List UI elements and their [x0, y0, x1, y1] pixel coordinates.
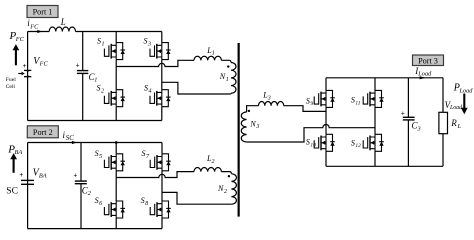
svg-text:3: 3: [267, 96, 271, 102]
inductor L3: [259, 102, 284, 106]
svg-text:5: 5: [99, 154, 102, 160]
svg-text:FC: FC: [39, 61, 49, 68]
node dot N2 top: [228, 175, 230, 177]
current arrow I_Load: [420, 76, 426, 79]
port 2 wire: left source branch: [27, 143, 29, 229]
svg-text:12: 12: [355, 143, 361, 149]
capacitor C1 branch wires: [82, 32, 84, 121]
node dot N1 top: [227, 65, 229, 67]
winding N1: [231, 63, 236, 94]
svg-text:L: L: [60, 17, 66, 27]
svg-text:SC: SC: [6, 187, 18, 197]
svg-text:S: S: [97, 84, 101, 93]
wire N1 bottom return: [162, 82, 231, 94]
Port 3 label box: [413, 55, 444, 66]
svg-text:3: 3: [417, 125, 421, 132]
wire A: bridge1 output to L1: [116, 60, 194, 66]
port 3 bottom rail wire: [326, 165, 443, 167]
capacitor C2: [75, 180, 87, 182]
transistor S9: [314, 90, 335, 107]
leg 2 wires port 3: [374, 78, 376, 167]
Port 1 label box: [27, 6, 58, 18]
power arrow P_BA: [10, 153, 17, 173]
svg-text:+: +: [73, 172, 77, 180]
svg-text:Port 1: Port 1: [33, 8, 53, 17]
leg 2 wires port 2: [161, 143, 163, 229]
leg 1 wires port 3: [325, 78, 327, 167]
svg-text:7: 7: [146, 154, 150, 160]
port 2 bottom rail wire: [28, 228, 162, 230]
svg-text:S: S: [142, 149, 146, 158]
svg-text:Cell: Cell: [6, 84, 16, 90]
port 1 wire: left source branch: [27, 32, 29, 121]
transistor S7: [150, 154, 171, 171]
svg-text:S: S: [97, 37, 101, 46]
svg-text:Load: Load: [417, 71, 432, 78]
svg-text:L: L: [457, 123, 462, 130]
transistor S10: [314, 134, 335, 151]
leg 1 wires port 2: [115, 143, 117, 229]
wire L3 to bridge3 leg1: [284, 106, 326, 112]
svg-text:6: 6: [99, 201, 102, 207]
fuel cell symbol: [18, 70, 31, 76]
inductor L2: [194, 168, 221, 172]
svg-text:2: 2: [88, 190, 92, 197]
transistor S3: [150, 43, 171, 60]
svg-text:1: 1: [212, 51, 215, 57]
transistor S8: [150, 201, 171, 218]
port 1 top rail wire: [28, 31, 162, 33]
resistor R_L: [439, 112, 448, 133]
transistor S12: [363, 134, 384, 151]
svg-text:Port 2: Port 2: [33, 128, 53, 137]
power arrow P_Load: [461, 94, 468, 115]
current arrow i_FC: [37, 30, 42, 33]
port 2 top rail wire: [28, 142, 162, 144]
svg-text:S: S: [351, 138, 355, 147]
svg-text:2: 2: [101, 89, 104, 95]
current arrow i_SC: [72, 141, 77, 144]
wire L2 to N2: [221, 172, 231, 174]
capacitor C3: [403, 116, 415, 118]
svg-text:FC: FC: [29, 24, 39, 31]
svg-text:10: 10: [310, 142, 316, 148]
load branch wires: [442, 78, 444, 167]
svg-text:3: 3: [255, 124, 259, 130]
svg-text:Load: Load: [449, 105, 462, 111]
transistor S5: [104, 154, 125, 171]
supercapacitor SC: [21, 179, 34, 181]
svg-text:+: +: [23, 62, 27, 70]
svg-text:S: S: [306, 138, 310, 147]
svg-text:S: S: [95, 196, 99, 205]
svg-text:3: 3: [147, 41, 151, 47]
svg-text:BA: BA: [15, 149, 23, 156]
leg 2 wires: [161, 32, 163, 121]
power arrow P_FC: [13, 44, 20, 65]
inductor L: [49, 27, 75, 32]
svg-text:+: +: [76, 62, 80, 70]
port 1 bottom rail wire: [28, 120, 162, 122]
leg 1 wires: [115, 32, 117, 121]
Port 2 label box: [27, 126, 58, 138]
svg-text:2: 2: [212, 159, 215, 165]
wire N2 bottom return: [162, 192, 231, 204]
svg-text:N: N: [217, 184, 224, 193]
svg-text:Port 3: Port 3: [418, 56, 438, 65]
svg-text:S: S: [351, 96, 355, 105]
svg-text:4: 4: [149, 88, 152, 95]
svg-text:Fuel: Fuel: [6, 77, 16, 83]
wire A2: bridge2 output to L2: [116, 172, 194, 178]
svg-text:BA: BA: [39, 172, 47, 179]
svg-text:Load: Load: [459, 87, 474, 94]
winding N2: [231, 174, 236, 204]
svg-text:1: 1: [94, 77, 97, 84]
transformer core bar: [238, 43, 240, 217]
wire L1 to N1: [221, 60, 231, 62]
wire N3 bottom to bridge3 leg2: [247, 125, 375, 142]
svg-text:N: N: [249, 119, 256, 128]
svg-text:R: R: [450, 118, 457, 128]
port 3 top rail wire: [326, 77, 443, 79]
svg-text:SC: SC: [66, 135, 74, 142]
svg-text:2: 2: [224, 189, 227, 195]
transistor S11: [363, 90, 384, 107]
inductor L1: [194, 56, 221, 60]
wire N3 top to L3: [247, 106, 259, 112]
transistor S4: [150, 90, 171, 107]
svg-text:11: 11: [355, 100, 360, 106]
transistor S1: [104, 43, 125, 60]
svg-text:FC: FC: [15, 36, 25, 43]
capacitor C1: [77, 70, 88, 72]
svg-text:1: 1: [226, 77, 229, 83]
node dot N3 top: [248, 110, 250, 112]
svg-text:S: S: [144, 84, 148, 93]
svg-text:N: N: [219, 72, 226, 81]
svg-text:S: S: [306, 96, 310, 105]
svg-text:S: S: [95, 149, 99, 158]
transistor S2: [104, 90, 125, 107]
svg-text:S: S: [144, 37, 148, 46]
transistor S6: [104, 201, 125, 218]
svg-text:+: +: [401, 110, 405, 118]
capacitor C2 branch wires: [80, 143, 82, 229]
svg-text:1: 1: [102, 41, 105, 47]
svg-text:+: +: [19, 171, 23, 179]
node dot on rail: [115, 141, 118, 144]
svg-text:8: 8: [145, 201, 148, 207]
svg-text:9: 9: [310, 101, 313, 107]
capacitor C3 branch wires: [407, 78, 409, 167]
winding N3: [241, 112, 246, 142]
svg-text:S: S: [141, 196, 145, 205]
